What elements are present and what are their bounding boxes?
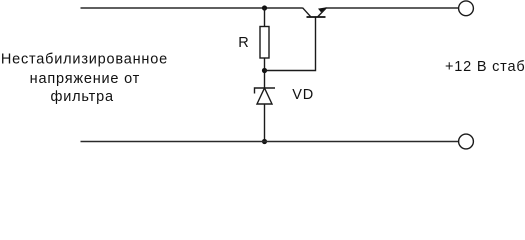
svg-text:напряжение от: напряжение от [30,71,140,87]
wire top output [327,7,459,9]
wire node A to base [265,17,316,71]
svg-text:R: R [238,35,248,51]
wire zener to bottom [264,104,266,142]
svg-text:Нестабилизированное: Нестабилизированное [1,51,168,67]
transistor Q1 base bar [307,16,326,18]
terminal output plus [459,1,474,16]
transistor Q1 emitter [318,8,327,17]
wire top to resistor [264,8,266,27]
transistor Q1 emitter arrow [318,7,327,12]
resistor R body [260,27,269,59]
zener VD triangle [257,88,272,104]
terminal output minus [459,134,474,149]
svg-text:VD: VD [292,87,314,103]
node junction on top wire [262,5,267,10]
wire top input [81,7,303,9]
svg-text:фильтра: фильтра [51,89,114,105]
transistor Q1 collector [303,8,311,17]
wire resistor to node A [264,58,266,89]
node A junction dot [262,68,267,73]
zener VD cathode bar [255,88,276,94]
node junction on bottom wire [262,139,267,144]
wire bottom rail [81,141,459,143]
svg-text:+12 В стаб: +12 В стаб [445,59,525,75]
